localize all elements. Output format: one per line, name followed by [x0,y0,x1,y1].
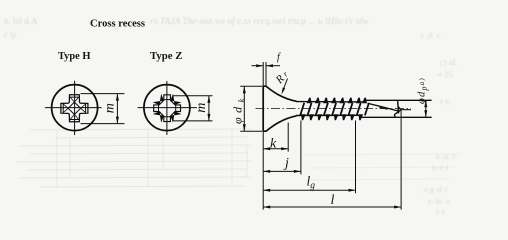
Type H centerline vertical [74,81,76,135]
extension line k right [287,123,289,152]
dimension m (Type Z) extension lines [173,95,213,97]
extension line below head face (left end of k,j,lg,l) [262,132,264,210]
drill point tip faces [398,100,399,113]
bleed-through ghost bottom-left ruled lines [16,129,460,187]
Type Z centerline vertical [166,81,168,135]
dimension phi dk dimension line [243,86,245,131]
drill point flute second line [380,107,388,109]
svg-text:e ,u. c: e ,u. c [436,151,457,161]
svg-text:-s 25: -s 25 [436,69,453,79]
svg-text:l: l [331,193,335,208]
dimension phi dp dimension line [425,100,427,117]
Type H head outline circle [52,85,98,131]
svg-text:r- ln .e: r- ln .e [428,196,450,206]
bleed-through ghost text top row [2,16,441,40]
extension line j right [300,121,302,175]
thread crests bottom [301,114,363,120]
svg-text:.e rp: .e rp [2,30,16,39]
dimension l line [263,206,401,208]
bleed-through ghost right column [420,57,457,216]
Type Z centerline horizontal [138,107,197,109]
svg-text:rs TAJA Tbe-nse.ws of e.ss r: rs TAJA Tbe-nse.ws of e.ss recq.tsel tru… [150,16,369,27]
svg-text:Type Z: Type Z [150,51,183,62]
Type H centerline horizontal [45,107,102,109]
svg-text:, e.g sl c: , e.g sl c [420,184,448,194]
dimension f arrow lines [252,65,264,67]
dimension m (Type H) dimension line [116,94,118,124]
head bottom outline (land + bugle curve) [263,116,296,131]
svg-text:Cross recess: Cross recess [90,19,145,30]
drill pilot bottom line + dp extension [362,116,432,118]
shank / thread root bottom line [296,114,362,116]
extension line l right [400,111,402,210]
screw centerline [256,108,412,110]
dimension m (Type Z) dimension line [208,96,210,121]
svg-text:m: m [103,103,118,113]
dimension k line [263,148,288,150]
Type H cross recess [61,95,88,122]
svg-text:Type H: Type H [58,51,91,62]
dimension phi dk extension lines [240,85,262,87]
thread crests top [307,98,367,104]
drill pilot top line + dp extension [365,99,432,101]
drill point chisel stub [401,109,411,111]
svg-text:.r e,: .r e, [438,96,451,106]
head top outline (land + bugle curve R) [263,86,296,101]
svg-text:n. lsI d.A: n. lsI d.A [4,16,38,26]
head face [262,86,264,132]
shank / thread root top line [296,101,365,103]
thread helix flank lines [300,103,369,116]
svg-text:v ,rl .c: v ,rl .c [420,31,441,40]
svg-text:k: k [270,137,277,152]
dimension lg line [263,189,355,191]
dimension j line [263,170,301,172]
dimension f extension lines [262,62,264,86]
extension line lg right [355,121,357,194]
dimension m (Type H) extension lines [81,93,125,95]
leader R [282,79,287,93]
Type Z cross recess [153,94,182,123]
svg-text:.s e: .s e [434,206,446,216]
svg-text:m: m [194,103,209,113]
drill point flute diagonal [368,103,400,111]
Type Z head outline circle [144,85,190,131]
svg-text:c) ul.: c) ul. [440,57,457,67]
